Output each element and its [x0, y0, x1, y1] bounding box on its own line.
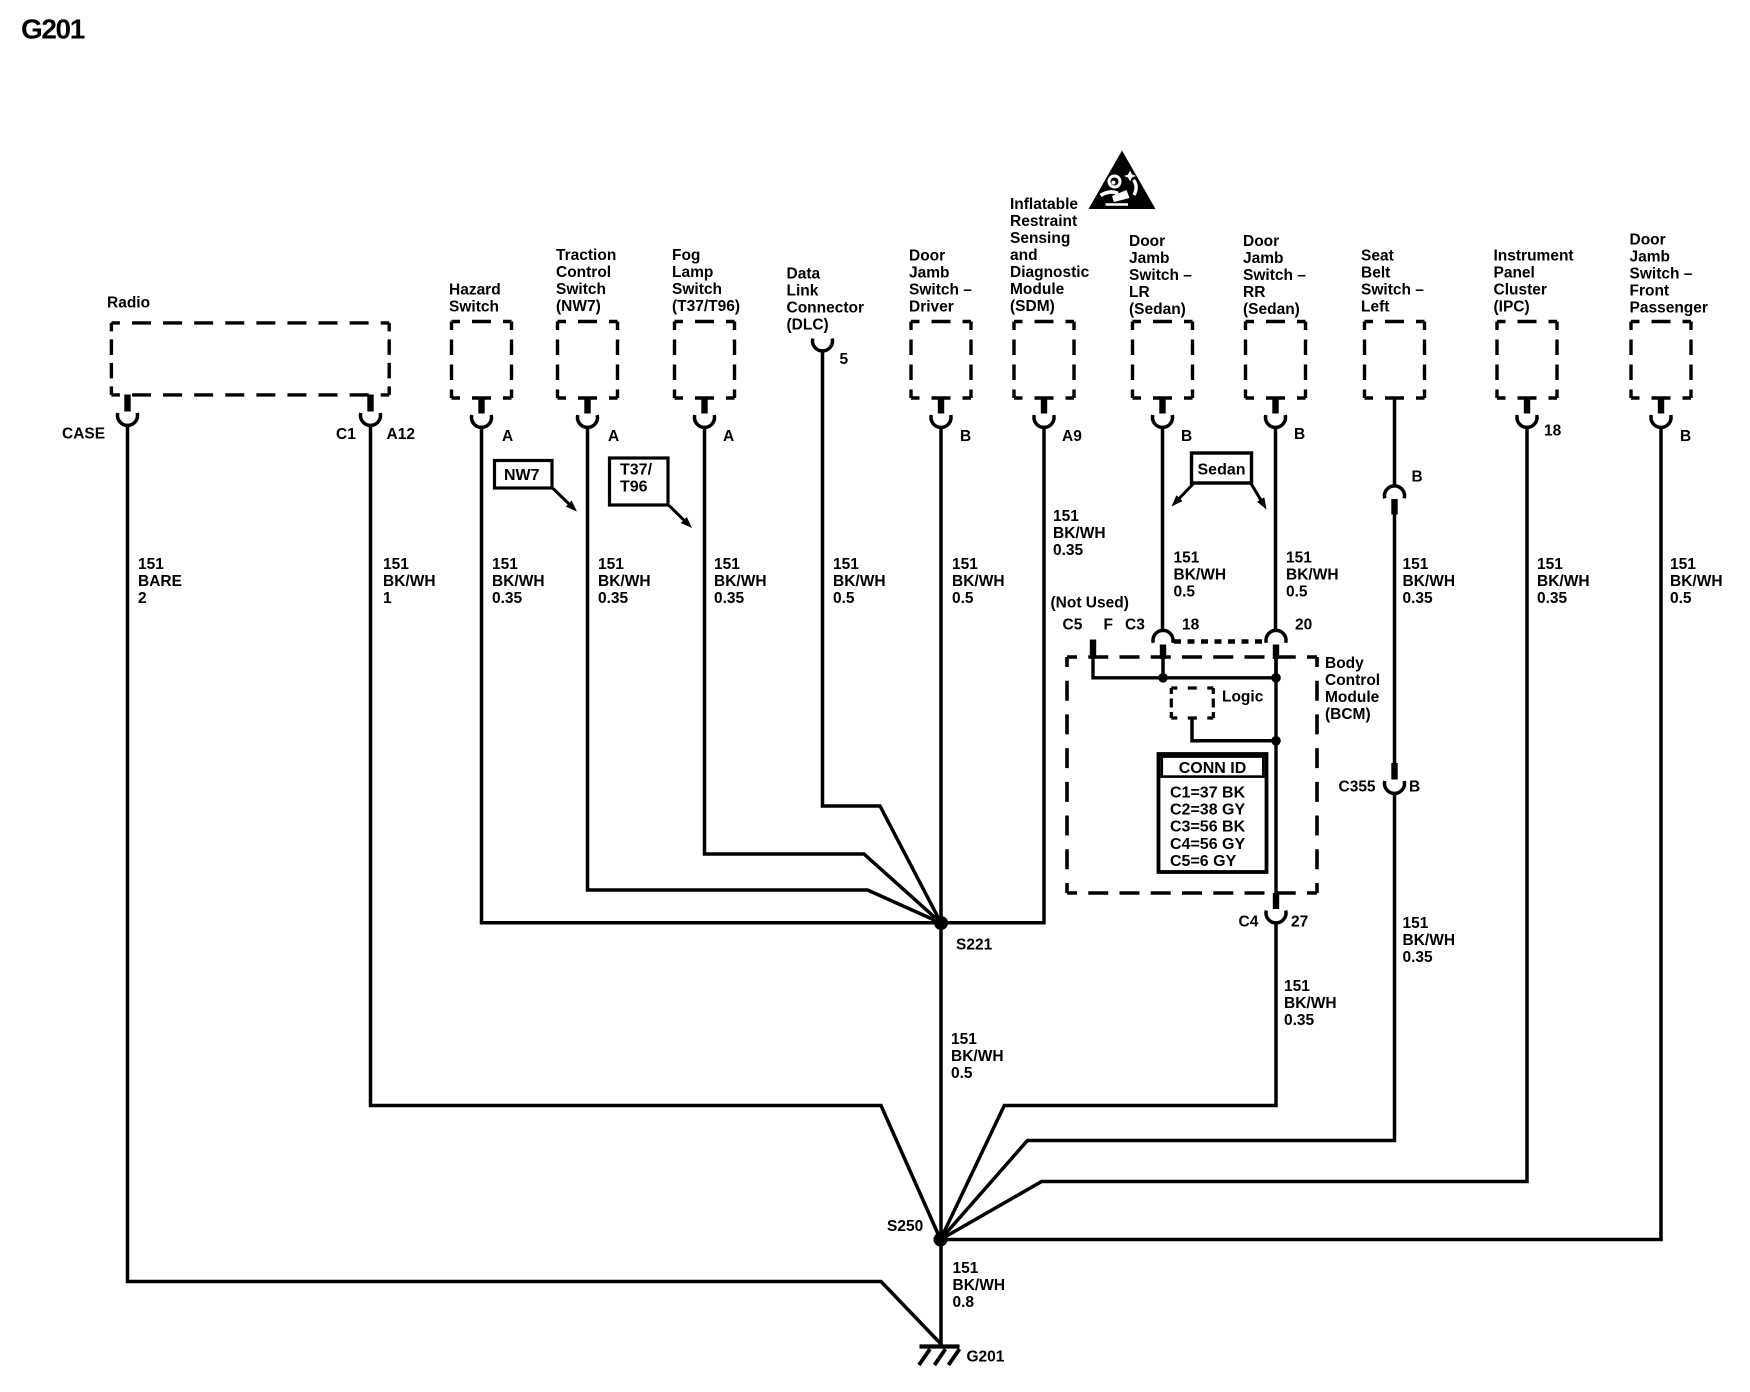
svg-text:Switch: Switch [556, 281, 606, 298]
svg-text:Diagnostic: Diagnostic [1010, 264, 1090, 281]
svg-text:Control: Control [556, 264, 611, 281]
svg-text:(BCM): (BCM) [1325, 706, 1371, 723]
splice S221 [934, 916, 993, 954]
BCM terminal C5/F (Not Used) [1051, 595, 1129, 658]
svg-text:Passenger: Passenger [1630, 300, 1708, 317]
svg-text:BK/WH: BK/WH [1286, 567, 1339, 584]
svg-text:0.5: 0.5 [1670, 590, 1692, 607]
BCM terminal C4/27 connector [1239, 893, 1309, 931]
svg-text:C355: C355 [1339, 779, 1376, 796]
label 151 BK/WH 0.35 (SDM) [1053, 508, 1106, 559]
svg-text:151: 151 [1670, 556, 1696, 573]
svg-text:151: 151 [1053, 508, 1079, 525]
Door Jamb Switch Driver terminal B connector [931, 397, 971, 446]
wire Door Jamb Driver / trunk through S221 and S250 to G201 [939, 426, 943, 1345]
svg-text:BK/WH: BK/WH [833, 573, 886, 590]
svg-text:A: A [502, 428, 513, 445]
svg-text:NW7: NW7 [504, 467, 540, 484]
svg-text:151: 151 [1286, 550, 1312, 567]
wire SDM to S221 [941, 426, 1044, 923]
svg-text:Jamb: Jamb [1129, 250, 1170, 267]
SDM terminal A9 connector [1034, 397, 1082, 446]
connector C355 terminal B [1339, 763, 1421, 796]
component Instrument Panel Cluster (IPC) (dashed box) [1494, 248, 1574, 399]
svg-text:G201: G201 [21, 14, 85, 45]
svg-text:Logic: Logic [1222, 689, 1264, 706]
svg-text:BK/WH: BK/WH [1403, 932, 1456, 949]
svg-text:Door: Door [909, 248, 945, 265]
label 151 BK/WH 0.5 (DLC) [833, 556, 886, 607]
svg-text:BK/WH: BK/WH [492, 573, 545, 590]
svg-text:151: 151 [492, 556, 518, 573]
BCM internal ground bus [1093, 656, 1281, 683]
svg-text:1: 1 [383, 590, 392, 607]
svg-text:151: 151 [598, 556, 624, 573]
svg-text:and: and [1010, 247, 1038, 264]
svg-text:CASE: CASE [62, 426, 105, 443]
svg-text:0.35: 0.35 [1284, 1012, 1315, 1029]
svg-text:151: 151 [952, 556, 978, 573]
svg-text:Belt: Belt [1361, 265, 1390, 282]
wire Seat Belt Switch to S250 [1393, 398, 1397, 485]
svg-text:B: B [1680, 428, 1691, 445]
svg-text:Traction: Traction [556, 247, 616, 264]
svg-text:Connector: Connector [787, 300, 865, 317]
svg-text:0.35: 0.35 [1403, 949, 1434, 966]
svg-text:Left: Left [1361, 299, 1389, 316]
CONN ID table [1159, 754, 1267, 872]
Traction Control Switch terminal A connector [578, 397, 620, 446]
svg-text:Switch: Switch [449, 299, 499, 316]
component Data Link Connector (DLC) [787, 266, 865, 334]
svg-text:Link: Link [787, 283, 819, 300]
svg-text:A: A [608, 428, 619, 445]
svg-text:A9: A9 [1062, 428, 1082, 445]
svg-text:C3=56 BK: C3=56 BK [1170, 819, 1246, 836]
callout NW7 with arrow [495, 461, 578, 512]
label 151 BK/WH 0.35 (traction) [598, 556, 651, 607]
svg-text:(Sedan): (Sedan) [1243, 301, 1300, 318]
label 151 BK/WH 0.5 (LR) [1174, 550, 1227, 601]
svg-text:BK/WH: BK/WH [1053, 525, 1106, 542]
svg-text:BK/WH: BK/WH [952, 573, 1005, 590]
component Door Jamb Switch - RR (Sedan) (dashed box) [1243, 233, 1306, 398]
svg-text:0.35: 0.35 [492, 590, 523, 607]
svg-text:BARE: BARE [138, 573, 182, 590]
component Radio (dashed box) [107, 295, 389, 395]
ground symbol G201 [919, 1347, 1005, 1366]
svg-text:BK/WH: BK/WH [953, 1277, 1006, 1294]
svg-text:151: 151 [1537, 556, 1563, 573]
svg-text:BK/WH: BK/WH [1403, 573, 1456, 590]
label 151 BK/WH 0.35 (fog) [714, 556, 767, 607]
svg-text:151: 151 [951, 1031, 977, 1048]
svg-text:Inflatable: Inflatable [1010, 196, 1078, 213]
wire BCM C4/27 to S250 [941, 922, 1277, 1240]
svg-text:A12: A12 [387, 426, 415, 443]
component Fog Lamp Switch (T37/T96) (dashed box) [672, 247, 740, 398]
wire Hazard Switch to S221 [482, 426, 942, 923]
svg-text:151: 151 [138, 556, 164, 573]
svg-text:S221: S221 [956, 937, 993, 954]
BCM Logic block [1171, 688, 1280, 746]
svg-text:Jamb: Jamb [1243, 250, 1284, 267]
label 151 BK/WH 0.35 (seat belt upper) [1403, 556, 1456, 607]
Door Jamb Front Passenger terminal B connector [1651, 397, 1691, 446]
svg-text:Radio: Radio [107, 295, 150, 312]
label 151 BK/WH 0.5 (driver) [952, 556, 1005, 607]
svg-text:C5=6 GY: C5=6 GY [1170, 853, 1237, 870]
wire Traction Control Switch to S221 [588, 426, 942, 923]
svg-text:A: A [723, 428, 734, 445]
wire IPC to S250 [941, 426, 1528, 1240]
component Seat Belt Switch - Left (dashed box) [1361, 248, 1425, 399]
svg-text:20: 20 [1295, 617, 1312, 634]
svg-text:Panel: Panel [1494, 265, 1535, 282]
label 151 BK/WH 0.8 (S250-G201) [953, 1260, 1006, 1311]
svg-text:Switch: Switch [672, 281, 722, 298]
svg-text:Switch –: Switch – [1129, 267, 1192, 284]
label 151 BK/WH 0.35 (seat belt lower) [1403, 915, 1456, 966]
svg-text:BK/WH: BK/WH [383, 573, 436, 590]
svg-text:0.5: 0.5 [1174, 584, 1196, 601]
Radio terminal C1/A12 connector [336, 395, 415, 444]
IPC terminal 18 connector [1517, 397, 1562, 440]
svg-text:BK/WH: BK/WH [1670, 573, 1723, 590]
svg-text:Switch –: Switch – [909, 282, 972, 299]
svg-text:Cluster: Cluster [1494, 282, 1547, 299]
svg-text:C3: C3 [1125, 617, 1145, 634]
BCM internal vertical wire to C4 [1274, 659, 1277, 896]
svg-text:0.5: 0.5 [952, 590, 974, 607]
svg-text:(Sedan): (Sedan) [1129, 301, 1186, 318]
svg-text:Sedan: Sedan [1198, 462, 1246, 479]
Fog Lamp Switch terminal A connector [695, 397, 735, 446]
svg-text:Door: Door [1243, 233, 1279, 250]
svg-text:Switch –: Switch – [1361, 282, 1424, 299]
svg-text:B: B [1181, 428, 1192, 445]
svg-text:Module: Module [1325, 689, 1380, 706]
label 151 BK/WH 0.5 (trunk S221-S250) [951, 1031, 1004, 1082]
svg-text:2: 2 [138, 590, 147, 607]
BCM terminal 20 connector [1266, 617, 1312, 678]
Radio terminal CASE connector [62, 395, 138, 443]
component Inflatable Restraint Sensing and Diagnostic Module (SDM) (dashed box) [1010, 196, 1090, 398]
wire Door Jamb LR to BCM terminal 18 [1161, 426, 1165, 632]
svg-text:BK/WH: BK/WH [598, 573, 651, 590]
svg-text:0.8: 0.8 [953, 1294, 975, 1311]
svg-text:C5: C5 [1063, 617, 1083, 634]
svg-text:0.35: 0.35 [1053, 542, 1084, 559]
svg-text:5: 5 [840, 351, 849, 368]
svg-text:BK/WH: BK/WH [1537, 573, 1590, 590]
svg-text:151: 151 [953, 1260, 979, 1277]
label 151 BK/WH 0.35 (C4 wire) [1284, 978, 1337, 1029]
svg-text:Door: Door [1129, 233, 1165, 250]
svg-text:Switch –: Switch – [1243, 267, 1306, 284]
svg-text:BK/WH: BK/WH [951, 1048, 1004, 1065]
svg-text:Lamp: Lamp [672, 264, 713, 281]
svg-text:Sensing: Sensing [1010, 230, 1070, 247]
label 151 BK/WH 0.35 (hazard) [492, 556, 545, 607]
callout T37/T96 with arrow [610, 458, 693, 528]
svg-text:(DLC): (DLC) [787, 317, 829, 334]
inline connector B on seat belt wire [1384, 469, 1422, 515]
component Traction Control Switch (NW7) (dashed box) [556, 247, 618, 398]
svg-text:0.35: 0.35 [1403, 590, 1434, 607]
svg-text:C1=37 BK: C1=37 BK [1170, 784, 1246, 801]
svg-text:(T37/T96): (T37/T96) [672, 298, 740, 315]
component Door Jamb Switch - LR (Sedan) (dashed box) [1129, 233, 1193, 398]
svg-text:B: B [1409, 779, 1420, 796]
label 151 BK/WH 0.5 (FP) [1670, 556, 1723, 607]
svg-text:S250: S250 [887, 1218, 923, 1235]
label 151 BK/WH 0.35 (IPC) [1537, 556, 1590, 607]
BCM terminal C3/18 connector [1125, 617, 1200, 678]
svg-text:C4: C4 [1239, 914, 1259, 931]
svg-text:C4=56 GY: C4=56 GY [1170, 836, 1245, 853]
svg-text:Hazard: Hazard [449, 282, 501, 299]
svg-text:(Not Used): (Not Used) [1051, 595, 1129, 612]
svg-text:BK/WH: BK/WH [1284, 995, 1337, 1012]
svg-text:(NW7): (NW7) [556, 298, 601, 315]
wire DLC to S221 [823, 350, 942, 924]
svg-text:(IPC): (IPC) [1494, 299, 1530, 316]
wire Radio CASE 151 BARE to G201 [128, 424, 941, 1344]
wire Door Jamb Front Passenger to S250 [947, 426, 1661, 1240]
svg-text:C1: C1 [336, 426, 356, 443]
svg-text:151: 151 [1403, 915, 1429, 932]
svg-text:Switch –: Switch – [1630, 266, 1693, 283]
svg-text:Jamb: Jamb [909, 265, 950, 282]
svg-text:0.35: 0.35 [598, 590, 629, 607]
wire Fog Lamp Switch to S221 [705, 426, 942, 923]
svg-text:C2=38 GY: C2=38 GY [1170, 802, 1245, 819]
label 151 BARE 2 [138, 556, 182, 607]
svg-text:151: 151 [1403, 556, 1429, 573]
svg-text:151: 151 [1174, 550, 1200, 567]
svg-text:Front: Front [1630, 283, 1670, 300]
DLC terminal 5 connector [813, 339, 849, 369]
svg-text:0.35: 0.35 [1537, 590, 1568, 607]
module Body Control Module (BCM) dashed box [1067, 655, 1380, 893]
svg-text:LR: LR [1129, 284, 1150, 301]
component Door Jamb Switch - Front Passenger (dashed box) [1630, 232, 1708, 399]
svg-text:(SDM): (SDM) [1010, 298, 1055, 315]
svg-text:T96: T96 [620, 479, 648, 496]
component Door Jamb Switch - Driver (dashed box) [909, 248, 972, 399]
svg-text:18: 18 [1182, 617, 1200, 634]
wire Radio A12 151 BK/WH 1 to S250 [371, 424, 941, 1240]
svg-text:BK/WH: BK/WH [1174, 567, 1227, 584]
svg-text:Door: Door [1630, 232, 1666, 249]
svg-text:18: 18 [1544, 423, 1562, 440]
Door Jamb RR terminal B connector [1266, 397, 1306, 444]
svg-text:0.5: 0.5 [1286, 584, 1308, 601]
svg-text:151: 151 [1284, 978, 1310, 995]
component Hazard Switch (dashed box) [449, 282, 512, 399]
svg-text:151: 151 [383, 556, 409, 573]
svg-text:0.5: 0.5 [833, 590, 855, 607]
svg-text:Seat: Seat [1361, 248, 1394, 265]
svg-text:27: 27 [1291, 914, 1308, 931]
svg-text:Control: Control [1325, 672, 1380, 689]
svg-text:Data: Data [787, 266, 821, 283]
svg-text:BK/WH: BK/WH [714, 573, 767, 590]
svg-text:Body: Body [1325, 655, 1364, 672]
svg-text:B: B [1294, 426, 1305, 443]
svg-text:Jamb: Jamb [1630, 249, 1671, 266]
svg-text:151: 151 [714, 556, 740, 573]
svg-text:Restraint: Restraint [1010, 213, 1077, 230]
splice S250 [887, 1218, 948, 1247]
svg-text:0.35: 0.35 [714, 590, 745, 607]
Door Jamb LR terminal B connector [1153, 397, 1193, 446]
svg-text:Fog: Fog [672, 247, 700, 264]
svg-text:G201: G201 [967, 1349, 1005, 1366]
svg-text:B: B [960, 428, 971, 445]
callout Sedan with two arrows [1172, 453, 1267, 510]
svg-text:151: 151 [833, 556, 859, 573]
svg-text:Module: Module [1010, 281, 1065, 298]
svg-text:CONN ID: CONN ID [1179, 760, 1247, 777]
wire Door Jamb RR to BCM terminal 20 [1274, 426, 1278, 632]
Hazard Switch terminal A connector [472, 397, 514, 446]
label 151 BK/WH 1 [383, 556, 436, 607]
label 151 BK/WH 0.5 (RR) [1286, 550, 1339, 601]
svg-text:F: F [1104, 617, 1113, 634]
svg-text:Driver: Driver [909, 299, 954, 316]
svg-text:RR: RR [1243, 284, 1265, 301]
dotted link between BCM terminals 18 and 20 [1174, 639, 1266, 644]
svg-text:0.5: 0.5 [951, 1065, 973, 1082]
svg-text:Instrument: Instrument [1494, 248, 1574, 265]
svg-text:B: B [1412, 469, 1423, 486]
svg-text:T37/: T37/ [620, 462, 653, 479]
SRS warning triangle icon [1089, 151, 1156, 210]
